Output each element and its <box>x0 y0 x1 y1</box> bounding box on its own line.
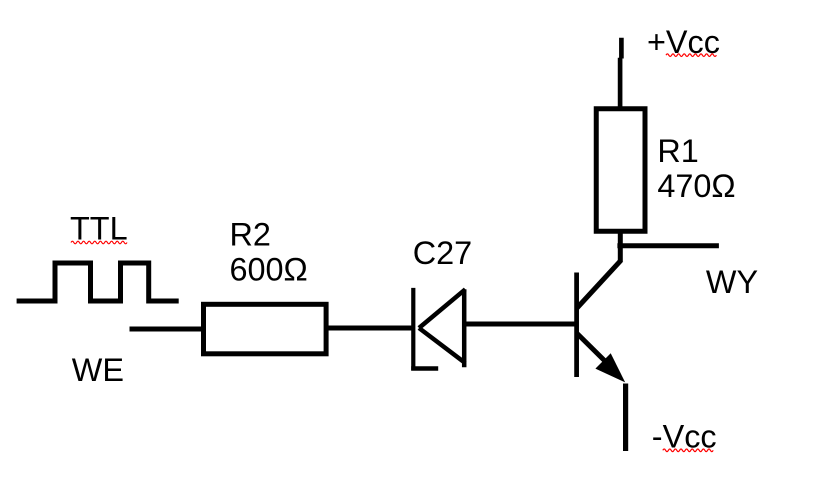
transistor Q1 emitter diagonal <box>577 333 611 367</box>
TTL label red squiggle underline <box>71 241 127 244</box>
svg-text:R1: R1 <box>657 133 698 169</box>
transistor Q1 emitter arrowhead <box>595 353 625 382</box>
svg-text:WE: WE <box>72 352 124 388</box>
transistor Q1 collector diagonal <box>577 260 621 308</box>
wire WY output <box>617 243 719 248</box>
diode C27 triangle <box>419 289 465 367</box>
transistor Q1 base bar <box>574 273 579 378</box>
TTL square wave <box>17 263 179 301</box>
wire R1 to +Vcc upper segment <box>619 38 624 59</box>
wire R2 to diode C27 <box>329 326 414 331</box>
+Vcc red squiggle underline <box>666 54 716 57</box>
-Vcc red squiggle underline <box>663 449 713 452</box>
svg-text:C27: C27 <box>413 235 472 271</box>
svg-text:600Ω: 600Ω <box>230 251 308 287</box>
wire WE input to R2 <box>130 327 205 332</box>
diode C27 cathode bar <box>411 288 415 371</box>
svg-text:-Vcc: -Vcc <box>652 419 717 455</box>
svg-text:470Ω: 470Ω <box>657 168 735 204</box>
resistor R2 <box>204 304 327 354</box>
wire diode C27 to Q1 base <box>466 322 576 327</box>
svg-text:WY: WY <box>706 264 758 300</box>
diode C27 cathode foot <box>411 366 438 371</box>
wire collector node to R1 <box>618 232 623 261</box>
resistor R1 <box>596 109 645 232</box>
svg-text:R2: R2 <box>230 217 271 253</box>
wire R1 to +Vcc lower segment <box>618 58 623 107</box>
wire emitter to -Vcc <box>623 384 628 452</box>
